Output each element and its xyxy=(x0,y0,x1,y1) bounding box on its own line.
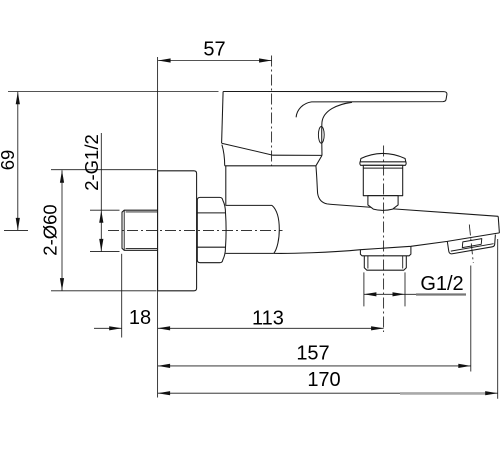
dimension line 113 xyxy=(158,327,384,329)
dimension line 170 xyxy=(158,392,498,394)
arrows 2-G1/2 xyxy=(99,210,103,223)
hex nut facet lines xyxy=(197,213,225,247)
cartridge collar right taper xyxy=(316,155,322,165)
aerator axis centerline xyxy=(469,225,473,264)
extension line pipe end xyxy=(121,254,123,338)
outlet axis centerline xyxy=(383,146,385,333)
grey leader segment under G1/2 label xyxy=(416,293,466,295)
svg-text:69: 69 xyxy=(0,150,18,171)
arrows dia60 xyxy=(60,170,64,183)
valve body block xyxy=(225,166,227,206)
dimension line 2-G1/2 xyxy=(100,133,102,251)
escutcheon flange (2-Ø60) xyxy=(158,171,197,291)
handle base bottom slant xyxy=(222,143,322,155)
centerlines xyxy=(108,56,473,333)
extension line aerator center xyxy=(470,266,472,372)
extension line spout tip xyxy=(497,239,499,399)
lever handle blade xyxy=(223,92,447,102)
dimension line 18 xyxy=(94,327,122,329)
dimension and extension lines xyxy=(4,57,498,399)
body inlet cylinder end arc xyxy=(272,205,279,253)
extension lines dia60 xyxy=(51,170,157,291)
grey overlay segment on 170 line xyxy=(400,392,488,395)
hex nut xyxy=(197,197,226,262)
spout top edge xyxy=(333,205,498,217)
dimension line 57 xyxy=(158,60,272,62)
arrowheads xyxy=(16,58,498,395)
diverter knob xyxy=(360,153,406,210)
handle button ellipse xyxy=(318,127,324,144)
lever neck curve xyxy=(322,102,352,155)
arrows 69 xyxy=(16,92,20,105)
threaded wall pipe (G1/2 inlet) xyxy=(122,210,158,250)
arrow 18 xyxy=(109,326,122,330)
handle base left edge xyxy=(222,92,224,144)
svg-text:2-G1/2: 2-G1/2 xyxy=(81,134,102,191)
arrows 157 xyxy=(158,364,171,368)
svg-text:18: 18 xyxy=(129,307,151,329)
aerator rim line xyxy=(451,244,494,251)
aerator insert rectangle xyxy=(462,239,482,248)
extension line inlet axis short xyxy=(4,229,28,231)
svg-text:113: 113 xyxy=(252,307,284,329)
dimension line 157 xyxy=(158,365,471,367)
dimension line dia60 xyxy=(61,170,63,290)
extension line wall face xyxy=(157,57,159,398)
diverter knob detail line xyxy=(363,167,402,169)
aerator housing xyxy=(447,235,495,254)
shower outlet threaded cylinder (G1/2) xyxy=(364,256,406,270)
arrows 57 xyxy=(158,58,171,62)
svg-text:G1/2: G1/2 xyxy=(420,273,463,295)
dimension texts xyxy=(0,39,464,391)
inlet axis centerline xyxy=(108,229,283,231)
extension lines outlet G1/2 xyxy=(364,272,405,306)
dimension line outlet G1/2 with leader xyxy=(364,293,466,295)
body right edge with fillet into spout xyxy=(316,166,333,205)
extension lines thread G1/2 left xyxy=(90,210,120,251)
lever front hook curve xyxy=(296,102,311,117)
shower outlet flange xyxy=(360,246,411,255)
arrows outlet G1/2 xyxy=(364,292,377,296)
body top edge xyxy=(225,165,316,167)
svg-text:2-Ø60: 2-Ø60 xyxy=(40,204,61,255)
svg-text:57: 57 xyxy=(203,39,225,61)
spout bottom edge xyxy=(274,233,500,254)
svg-text:157: 157 xyxy=(296,342,329,364)
svg-text:170: 170 xyxy=(307,369,340,391)
arrows 170 xyxy=(158,391,171,395)
cartridge axis centerline xyxy=(271,56,273,167)
dimension line 69 xyxy=(17,92,19,231)
extension line top reference y=91.5 xyxy=(8,91,219,93)
body inlet cylinder xyxy=(226,205,274,253)
spout end face xyxy=(498,216,499,233)
arrows 113 xyxy=(158,326,171,330)
cartridge collar left edge xyxy=(222,145,225,166)
